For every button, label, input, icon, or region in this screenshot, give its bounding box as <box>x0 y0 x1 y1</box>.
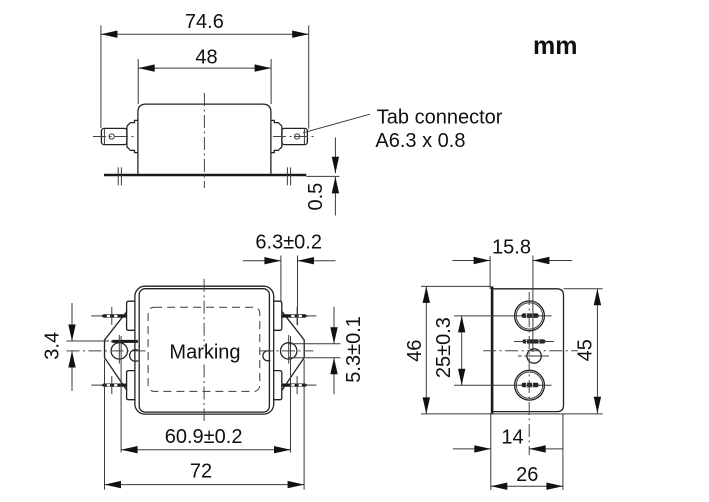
svg-text:Marking: Marking <box>169 341 240 363</box>
dimension 3.4 <box>41 303 109 391</box>
vertical center line <box>203 279 205 347</box>
svg-text:25±0.3: 25±0.3 <box>433 317 455 378</box>
dimension 26 <box>491 414 563 490</box>
body outer <box>135 286 274 414</box>
svg-text:14: 14 <box>501 427 523 449</box>
plate top ext line 46 <box>421 285 491 287</box>
bottom-left tab block <box>127 371 135 400</box>
15.8 ext line right <box>532 256 534 353</box>
horizontal center line <box>483 350 578 352</box>
right hole vertical center mark <box>288 335 290 364</box>
right hole <box>281 343 297 359</box>
left hole <box>111 343 127 359</box>
svg-text:15.8: 15.8 <box>492 237 531 259</box>
dimension 60.9 <box>121 336 290 453</box>
dimension 74.6 <box>101 11 309 129</box>
horizontal center line right <box>273 136 317 138</box>
dimension 0.5 <box>305 138 339 216</box>
left notch <box>130 350 139 362</box>
svg-text:45: 45 <box>574 339 596 361</box>
leader line tab connector <box>303 114 370 133</box>
top tab circle <box>454 301 552 331</box>
svg-text:Tab connector: Tab connector <box>377 106 503 128</box>
svg-text:60.9±0.2: 60.9±0.2 <box>165 426 243 448</box>
svg-text:72: 72 <box>190 461 212 483</box>
bottom-right tab blade <box>282 384 308 387</box>
svg-text:74.6: 74.6 <box>185 11 224 33</box>
left flange <box>105 311 128 390</box>
small circle <box>527 349 541 363</box>
body outline <box>138 104 271 174</box>
dimension 14 <box>453 414 563 490</box>
svg-text:26: 26 <box>516 464 538 486</box>
svg-text:mm: mm <box>533 32 577 60</box>
marking dashed rect <box>148 307 260 391</box>
dimension 25 <box>433 316 465 385</box>
45 top ext line <box>564 288 603 290</box>
top-left tab block <box>127 301 135 330</box>
mounting plate edge <box>491 286 494 414</box>
dimension 6.3 <box>243 232 336 326</box>
svg-text:48: 48 <box>195 47 217 69</box>
left tab connector <box>101 120 137 152</box>
top-right tab blade <box>282 314 308 317</box>
left hole vertical center mark <box>118 335 120 364</box>
plate tick marks right <box>286 167 288 185</box>
right tab connector <box>271 120 308 152</box>
bottom-right tab block <box>274 371 282 400</box>
bottom tab circle <box>454 370 552 400</box>
body inner <box>139 289 269 412</box>
svg-text:A6.3 x 0.8: A6.3 x 0.8 <box>375 130 465 152</box>
dimension 15.8 <box>452 237 572 289</box>
right notch <box>263 351 271 361</box>
dimension 45 <box>574 289 601 413</box>
horizontal center line left <box>93 136 136 138</box>
dimension 5.3 <box>288 307 365 395</box>
vertical center line <box>528 292 530 455</box>
top-left tab blade <box>101 314 127 317</box>
top-right tab block <box>274 301 282 330</box>
body outline <box>491 289 564 412</box>
svg-text:6.3±0.2: 6.3±0.2 <box>255 232 322 254</box>
vertical center line <box>203 93 205 188</box>
plate tick marks left <box>117 167 119 185</box>
dimension 72 <box>105 360 305 490</box>
baseplate <box>104 174 306 177</box>
common bottom ext line <box>421 413 603 415</box>
svg-text:3.4: 3.4 <box>41 332 63 360</box>
svg-text:5.3±0.1: 5.3±0.1 <box>343 316 365 383</box>
left slot <box>111 340 138 343</box>
right flange <box>282 311 304 390</box>
middle slot <box>523 339 546 343</box>
bottom-left tab blade <box>101 384 127 387</box>
dimension 48 <box>138 47 271 105</box>
dimension 46 <box>404 286 430 414</box>
horizontal center line <box>67 350 148 352</box>
svg-text:0.5: 0.5 <box>305 183 327 211</box>
svg-text:46: 46 <box>404 340 426 362</box>
